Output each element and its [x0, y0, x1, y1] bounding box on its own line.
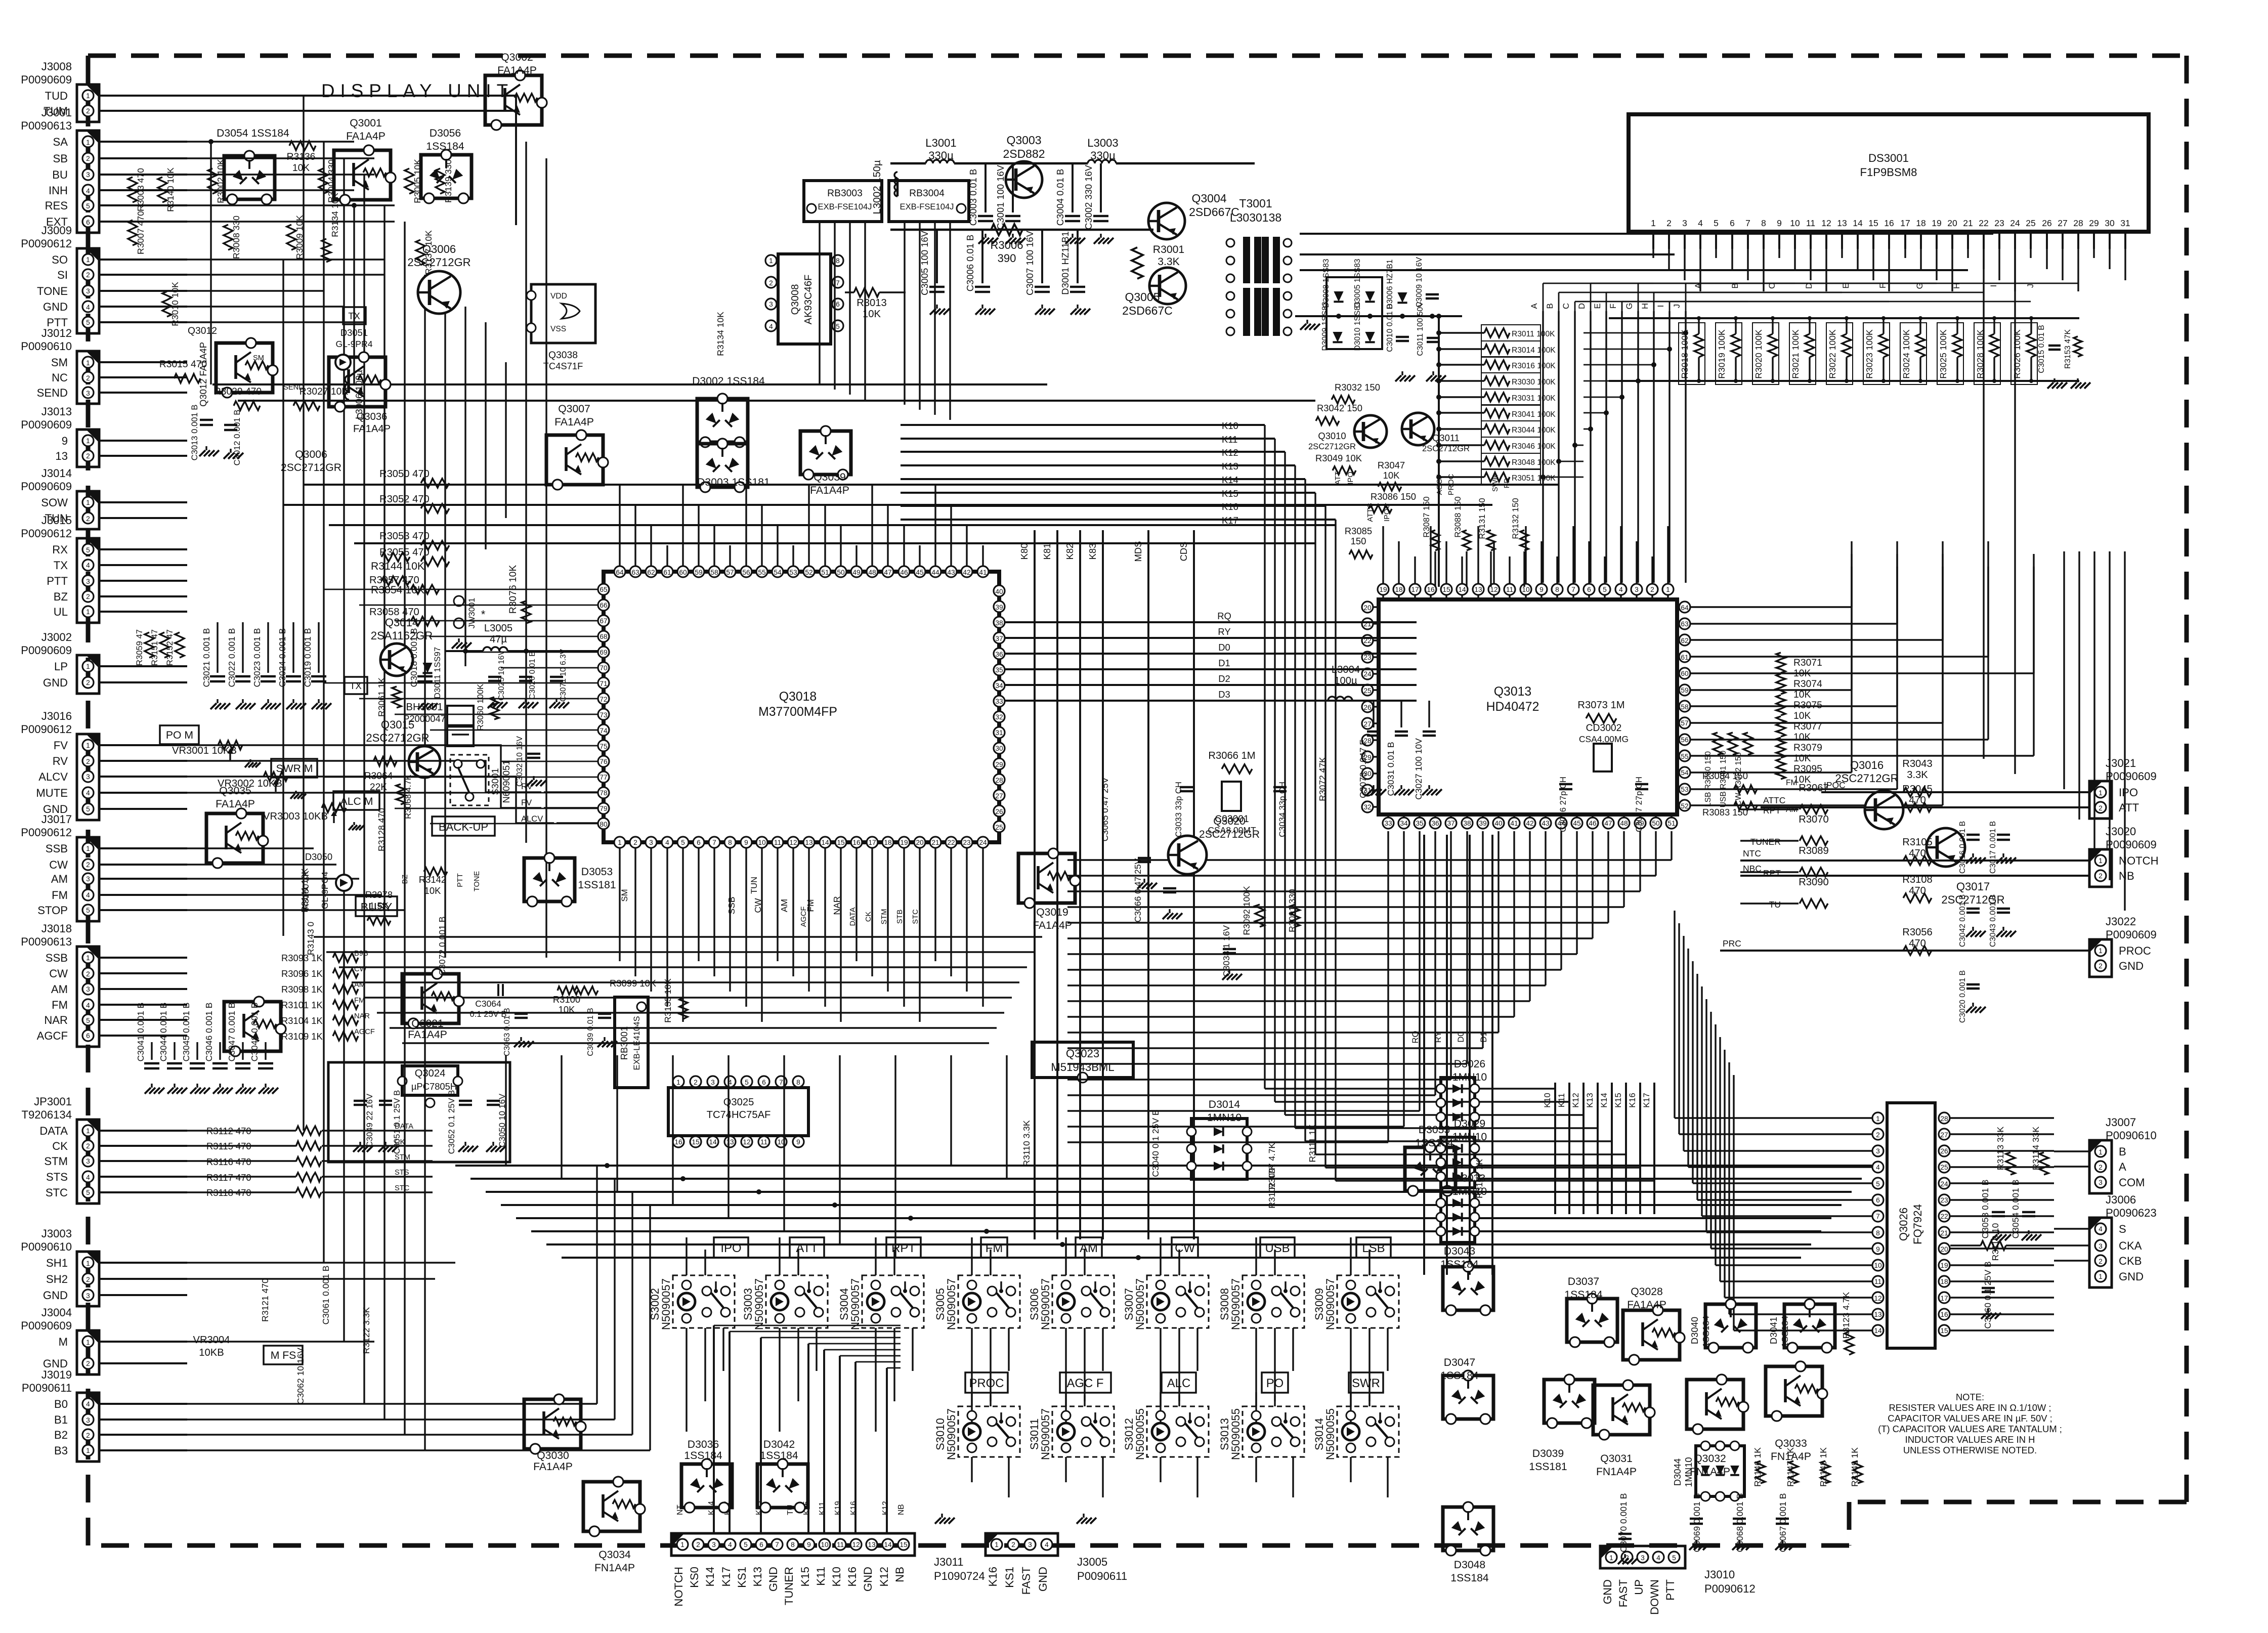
svg-text:42: 42 [1526, 820, 1533, 827]
svg-text:BU: BU [52, 168, 68, 181]
svg-text:P0090612: P0090612 [21, 826, 72, 839]
svg-text:2SC2712GR: 2SC2712GR [1422, 444, 1470, 453]
svg-text:K11: K11 [818, 1501, 827, 1515]
svg-text:T3001: T3001 [1239, 197, 1272, 210]
svg-text:R3150 1K: R3150 1K [301, 871, 311, 910]
svg-text:Q3028: Q3028 [1631, 1286, 1663, 1298]
svg-text:RES: RES [45, 199, 68, 212]
svg-text:FAST: FAST [1020, 1567, 1033, 1595]
svg-text:3: 3 [2099, 1179, 2103, 1186]
svg-text:7: 7 [1876, 1213, 1880, 1220]
svg-text:R3079: R3079 [1793, 743, 1822, 753]
svg-text:37: 37 [1447, 820, 1454, 827]
svg-text:36: 36 [995, 651, 1003, 658]
svg-text:2: 2 [86, 515, 90, 523]
svg-text:D3047: D3047 [1444, 1357, 1475, 1368]
svg-text:BUSY: BUSY [361, 900, 393, 914]
svg-text:D1: D1 [1218, 658, 1230, 668]
svg-text:J: J [1672, 304, 1682, 308]
svg-text:50: 50 [1652, 820, 1660, 827]
svg-text:C3049 22 16V: C3049 22 16V [365, 1094, 374, 1147]
svg-text:27: 27 [1363, 720, 1371, 728]
svg-text:2: 2 [86, 452, 90, 460]
svg-text:41: 41 [1510, 820, 1518, 827]
svg-text:J3015: J3015 [41, 514, 72, 527]
svg-text:52: 52 [1681, 802, 1688, 810]
svg-text:C3052 0.1 25V B: C3052 0.1 25V B [447, 1090, 456, 1154]
svg-text:VR3001 10KB: VR3001 10KB [172, 745, 237, 756]
svg-text:D3041: D3041 [1768, 1317, 1779, 1344]
svg-text:R3095: R3095 [1793, 764, 1822, 775]
svg-text:R3118 470: R3118 470 [206, 1187, 251, 1198]
svg-text:18: 18 [1916, 218, 1925, 228]
svg-text:20: 20 [1947, 218, 1957, 228]
svg-text:45: 45 [1573, 820, 1581, 827]
svg-text:VR3003 10KB: VR3003 10KB [263, 811, 328, 822]
svg-text:17: 17 [868, 839, 876, 846]
svg-text:1: 1 [2099, 857, 2103, 865]
svg-text:R3058 470: R3058 470 [369, 607, 419, 618]
svg-text:FM: FM [52, 999, 68, 1011]
svg-text:66: 66 [600, 601, 608, 609]
svg-text:R3090: R3090 [1799, 877, 1829, 888]
svg-text:2: 2 [1666, 218, 1672, 228]
svg-text:3: 3 [86, 578, 90, 585]
svg-text:18: 18 [884, 839, 892, 846]
svg-text:30: 30 [2105, 218, 2115, 228]
svg-text:K11: K11 [815, 1567, 827, 1586]
svg-text:AGCF: AGCF [354, 1028, 375, 1036]
svg-text:12: 12 [1821, 218, 1831, 228]
svg-text:USB: USB [1265, 1241, 1290, 1255]
svg-text:AK93C46F: AK93C46F [803, 275, 814, 325]
svg-text:RV: RV [53, 755, 68, 767]
svg-text:C3038 1 16V: C3038 1 16V [1221, 925, 1231, 977]
svg-text:6: 6 [759, 1541, 763, 1549]
svg-text:R3031 100K: R3031 100K [1512, 394, 1556, 403]
svg-text:R3096 1K: R3096 1K [281, 968, 323, 979]
svg-text:1: 1 [86, 1260, 90, 1267]
svg-text:K16: K16 [849, 1501, 858, 1515]
svg-text:1SS184: 1SS184 [1440, 1370, 1479, 1382]
svg-text:56: 56 [742, 569, 750, 576]
svg-text:N5090057: N5090057 [1324, 1278, 1337, 1330]
svg-text:J3014: J3014 [41, 467, 72, 480]
svg-text:16: 16 [1884, 218, 1894, 228]
svg-text:C3023 0.001 B: C3023 0.001 B [252, 628, 262, 687]
svg-text:E: E [1593, 303, 1602, 309]
svg-text:N5090055: N5090055 [1229, 1408, 1242, 1460]
svg-text:Q3026: Q3026 [1897, 1208, 1910, 1241]
svg-text:42: 42 [963, 569, 970, 576]
svg-text:JW3001: JW3001 [467, 598, 477, 629]
svg-text:RESISTER VALUES ARE IN Ω.1/10: RESISTER VALUES ARE IN Ω.1/10W ; [1889, 1402, 2051, 1413]
svg-text:H: H [1952, 283, 1961, 289]
svg-text:60: 60 [1681, 670, 1689, 677]
svg-text:FM: FM [52, 889, 68, 901]
svg-text:10K: 10K [1793, 668, 1811, 679]
svg-text:PD: PD [1503, 478, 1511, 488]
svg-text:2: 2 [86, 374, 90, 382]
svg-text:12: 12 [852, 1541, 860, 1549]
svg-text:R3032 150: R3032 150 [1335, 382, 1380, 393]
svg-text:C3053 0.001 B: C3053 0.001 B [1980, 1180, 1990, 1239]
svg-text:R3132 150: R3132 150 [1511, 498, 1520, 539]
svg-text:R3083 150: R3083 150 [1702, 807, 1748, 818]
svg-text:51: 51 [1667, 820, 1675, 827]
svg-text:C3021 0.001 B: C3021 0.001 B [201, 628, 211, 687]
svg-text:FA1A4P: FA1A4P [533, 1461, 573, 1473]
svg-text:R3016 100K: R3016 100K [1512, 362, 1556, 370]
svg-text:Q3013: Q3013 [1494, 685, 1531, 699]
svg-text:1: 1 [2099, 1273, 2103, 1280]
svg-text:Q3006: Q3006 [295, 449, 327, 460]
svg-text:D3001 HZ11B1: D3001 HZ11B1 [1060, 231, 1071, 294]
svg-text:57: 57 [1681, 719, 1688, 727]
svg-text:16: 16 [1940, 1311, 1948, 1318]
svg-text:R3051 100K: R3051 100K [1512, 474, 1556, 483]
svg-text:AM: AM [51, 873, 68, 885]
svg-text:47µ: 47µ [490, 634, 507, 645]
svg-text:R3005 10K: R3005 10K [412, 159, 422, 203]
svg-text:10K: 10K [292, 163, 310, 174]
svg-text:100µ: 100µ [1334, 675, 1357, 686]
svg-text:3.3K: 3.3K [1907, 769, 1928, 781]
svg-text:P0090623: P0090623 [2106, 1207, 2157, 1219]
svg-text:K17: K17 [1642, 1093, 1651, 1108]
svg-text:INH: INH [49, 184, 68, 197]
svg-text:GND: GND [43, 300, 68, 313]
svg-text:STM: STM [44, 1155, 68, 1168]
svg-text:13: 13 [1837, 218, 1847, 228]
svg-text:TU: TU [1769, 899, 1781, 910]
svg-text:C3063 0.01 B: C3063 0.01 B [503, 1008, 511, 1056]
svg-text:GND: GND [43, 1289, 68, 1302]
svg-text:PROC: PROC [969, 1377, 1004, 1390]
svg-text:40: 40 [995, 588, 1003, 595]
svg-text:1SS184: 1SS184 [426, 141, 464, 152]
svg-text:20: 20 [916, 839, 924, 846]
svg-text:CDS: CDS [1178, 542, 1189, 562]
svg-text:J3011: J3011 [934, 1556, 964, 1568]
svg-text:R3117 470: R3117 470 [206, 1172, 251, 1183]
svg-text:4: 4 [86, 187, 90, 195]
svg-text:33: 33 [1384, 820, 1392, 827]
svg-text:11: 11 [760, 1138, 767, 1146]
svg-text:VR3002 10KB: VR3002 10KB [218, 778, 282, 789]
svg-text:Q3003: Q3003 [1006, 134, 1041, 147]
svg-text:4: 4 [2099, 1225, 2103, 1233]
svg-text:1: 1 [2099, 789, 2103, 797]
svg-text:D3039: D3039 [1532, 1448, 1564, 1459]
svg-text:C3017 0.001 B: C3017 0.001 B [1989, 821, 1997, 874]
svg-text:C3042 0.001 B: C3042 0.001 B [1958, 894, 1967, 947]
svg-text:TUNER: TUNER [783, 1567, 795, 1605]
svg-text:R3093 1K: R3093 1K [281, 953, 323, 963]
svg-text:PO M: PO M [166, 729, 193, 741]
svg-text:L3006 100µ: L3006 100µ [354, 370, 364, 419]
svg-text:Q3023: Q3023 [1066, 1047, 1099, 1060]
svg-text:14: 14 [709, 1138, 717, 1146]
svg-text:13: 13 [726, 1138, 734, 1146]
svg-text:N5090057: N5090057 [1134, 1278, 1146, 1330]
svg-text:3: 3 [86, 875, 90, 883]
svg-text:GL-9PG4: GL-9PG4 [320, 872, 330, 909]
svg-text:CD3002: CD3002 [1586, 723, 1622, 734]
svg-text:3: 3 [86, 985, 90, 993]
svg-text:GND: GND [2119, 960, 2144, 972]
svg-text:6: 6 [1876, 1196, 1880, 1204]
svg-text:8: 8 [796, 1079, 800, 1086]
svg-text:R3102 47K: R3102 47K [1267, 1164, 1277, 1209]
svg-text:J: J [2026, 284, 2035, 288]
svg-text:J3006: J3006 [2106, 1193, 2136, 1206]
svg-text:C3072 0.001 B: C3072 0.001 B [437, 917, 447, 976]
svg-text:22: 22 [1940, 1213, 1948, 1220]
svg-text:1: 1 [86, 139, 90, 146]
svg-text:10: 10 [1874, 1262, 1882, 1269]
svg-text:54: 54 [774, 569, 782, 576]
svg-text:GND: GND [1601, 1579, 1614, 1604]
svg-text:Q3038: Q3038 [548, 350, 578, 361]
svg-text:D3005 1SS83: D3005 1SS83 [1353, 259, 1362, 308]
svg-text:R3086 150: R3086 150 [1371, 491, 1416, 502]
svg-text:K15: K15 [799, 1567, 811, 1586]
svg-text:40: 40 [1494, 820, 1503, 827]
svg-text:D3011 1SS97: D3011 1SS97 [433, 647, 442, 699]
svg-text:57: 57 [726, 569, 734, 576]
svg-text:36: 36 [1431, 820, 1439, 827]
svg-text:Q3012 FA1A4P: Q3012 FA1A4P [198, 342, 208, 407]
svg-text:C3027 100 10V: C3027 100 10V [1414, 738, 1424, 800]
svg-text:5: 5 [1876, 1180, 1880, 1188]
svg-text:CW: CW [49, 858, 68, 871]
svg-text:1MN10: 1MN10 [1452, 1131, 1487, 1143]
svg-text:470: 470 [1909, 885, 1926, 896]
svg-text:5: 5 [86, 1017, 90, 1024]
svg-text:FM: FM [1786, 779, 1798, 787]
svg-text:1MN10: 1MN10 [1207, 1112, 1242, 1124]
svg-text:Q3016: Q3016 [1850, 759, 1884, 771]
svg-text:GND: GND [43, 676, 68, 689]
svg-text:SSB: SSB [726, 896, 737, 914]
svg-text:CKB: CKB [2119, 1255, 2142, 1267]
svg-text:K11: K11 [1222, 434, 1237, 445]
svg-text:D: D [1804, 283, 1814, 289]
svg-text:25: 25 [1363, 687, 1372, 695]
svg-text:2: 2 [633, 839, 637, 846]
svg-text:K14: K14 [1222, 475, 1238, 485]
svg-text:15: 15 [1868, 218, 1878, 228]
svg-text:1: 1 [1876, 1115, 1880, 1123]
svg-text:10K: 10K [1793, 753, 1811, 764]
svg-text:RQ: RQ [1217, 611, 1231, 621]
svg-text:L3004: L3004 [1332, 664, 1360, 675]
svg-text:TX: TX [54, 559, 68, 572]
svg-text:SO: SO [52, 253, 68, 266]
svg-text:2SD882: 2SD882 [1003, 147, 1045, 160]
svg-text:8: 8 [1761, 218, 1766, 228]
svg-text:13: 13 [805, 839, 813, 846]
svg-text:B: B [2119, 1145, 2126, 1158]
svg-text:A: A [2119, 1161, 2126, 1173]
svg-text:C3046 0.001 B: C3046 0.001 B [204, 1003, 214, 1062]
svg-text:R3111 1K: R3111 1K [1307, 1124, 1317, 1163]
svg-text:5: 5 [1714, 218, 1719, 228]
svg-text:I: I [1656, 305, 1665, 308]
svg-text:65: 65 [600, 586, 608, 593]
svg-text:390: 390 [998, 252, 1016, 265]
svg-text:7: 7 [779, 1079, 783, 1086]
svg-text:P0090609: P0090609 [2106, 838, 2157, 851]
svg-text:51: 51 [821, 569, 829, 576]
svg-text:5: 5 [745, 1079, 749, 1086]
svg-text:J3009: J3009 [41, 224, 72, 237]
svg-text:NAR: NAR [354, 1012, 370, 1020]
svg-text:C3009 10 16V: C3009 10 16V [1415, 257, 1424, 308]
svg-text:K15: K15 [1222, 488, 1238, 499]
svg-text:62: 62 [647, 569, 655, 576]
svg-text:STB: STB [896, 910, 904, 924]
svg-text:10K: 10K [1383, 470, 1400, 481]
svg-text:Q3011: Q3011 [1432, 433, 1460, 443]
svg-text:C3007 100 16V: C3007 100 16V [1024, 230, 1035, 295]
svg-text:TC4S71F: TC4S71F [543, 361, 583, 371]
svg-text:31: 31 [995, 729, 1003, 737]
svg-text:TX: TX [350, 680, 362, 691]
svg-text:AGCF: AGCF [1436, 475, 1444, 495]
svg-text:CSA8.00MT: CSA8.00MT [1208, 825, 1256, 835]
svg-text:TUN: TUN [749, 877, 759, 894]
svg-text:PO: PO [1266, 1377, 1284, 1390]
svg-text:SEND: SEND [37, 386, 68, 399]
svg-text:1: 1 [769, 257, 773, 265]
svg-text:N5090057: N5090057 [660, 1278, 672, 1330]
svg-text:26: 26 [2042, 218, 2051, 228]
svg-text:B2: B2 [54, 1429, 68, 1441]
svg-text:23: 23 [963, 839, 971, 846]
svg-text:1SS181: 1SS181 [1529, 1461, 1567, 1473]
svg-text:6: 6 [86, 219, 90, 226]
svg-text:28: 28 [995, 777, 1003, 784]
svg-text:AGCF: AGCF [37, 1029, 68, 1042]
svg-text:3: 3 [1641, 1554, 1645, 1562]
svg-text:Q3019: Q3019 [1036, 907, 1068, 918]
svg-text:VSS: VSS [550, 325, 566, 333]
svg-text:22: 22 [1979, 218, 1988, 228]
svg-text:R3085: R3085 [1345, 526, 1372, 536]
svg-text:CKA: CKA [2119, 1239, 2142, 1252]
svg-text:4: 4 [1045, 1541, 1049, 1549]
svg-text:M FS: M FS [271, 1350, 296, 1361]
svg-text:1: 1 [1651, 218, 1656, 228]
svg-text:1SS184: 1SS184 [1415, 1137, 1453, 1149]
svg-text:D3042: D3042 [763, 1439, 795, 1450]
svg-text:4: 4 [1698, 218, 1703, 228]
svg-text:4: 4 [1619, 586, 1623, 593]
svg-text:3: 3 [86, 171, 90, 179]
svg-text:1: 1 [618, 839, 622, 846]
svg-text:10: 10 [1522, 586, 1530, 593]
svg-text:D3055: D3055 [1419, 1124, 1450, 1136]
svg-text:DATA: DATA [395, 1123, 413, 1131]
svg-text:12: 12 [1490, 586, 1497, 593]
svg-text:R3025 100K: R3025 100K [1938, 329, 1948, 379]
svg-text:GND: GND [862, 1567, 874, 1592]
svg-text:JP3001: JP3001 [34, 1095, 72, 1108]
svg-text:64: 64 [616, 569, 624, 576]
svg-text:R3007 470: R3007 470 [136, 211, 146, 254]
svg-text:1: 1 [86, 663, 90, 670]
svg-text:15: 15 [692, 1138, 700, 1146]
svg-text:61: 61 [1681, 654, 1688, 661]
svg-text:80: 80 [600, 821, 608, 828]
svg-text:C: C [1561, 303, 1571, 309]
svg-text:C3039 0.01 B: C3039 0.01 B [586, 1008, 595, 1056]
svg-text:SA: SA [53, 136, 68, 148]
svg-text:C3054 0.001 B: C3054 0.001 B [2010, 1180, 2021, 1239]
svg-text:1SS184: 1SS184 [1564, 1289, 1603, 1301]
svg-text:R3136: R3136 [287, 152, 316, 162]
svg-text:D3009 1SS83: D3009 1SS83 [1321, 302, 1330, 351]
svg-text:FQ7924: FQ7924 [1911, 1204, 1924, 1244]
svg-text:R3050 470: R3050 470 [379, 468, 430, 480]
svg-text:3: 3 [86, 1157, 90, 1165]
svg-text:5: 5 [86, 319, 90, 326]
svg-text:T9206134: T9206134 [21, 1108, 72, 1121]
svg-text:1: 1 [86, 359, 90, 367]
svg-text:38: 38 [1463, 820, 1471, 827]
svg-text:C3048 0.001 B: C3048 0.001 B [249, 1003, 260, 1062]
svg-text:R3042 150: R3042 150 [1317, 403, 1362, 413]
svg-text:P0090610: P0090610 [2106, 1129, 2157, 1142]
svg-text:C3066 0.47 25V: C3066 0.47 25V [1133, 858, 1143, 922]
svg-text:R3105: R3105 [1902, 837, 1933, 848]
svg-text:P0090613: P0090613 [21, 935, 72, 948]
svg-text:K80: K80 [1019, 543, 1030, 560]
svg-text:7: 7 [1571, 586, 1575, 593]
svg-text:16: 16 [852, 839, 861, 846]
svg-text:2SA1162GR: 2SA1162GR [371, 629, 433, 642]
svg-text:2SD667C: 2SD667C [1189, 205, 1239, 219]
svg-text:1: 1 [1609, 1554, 1613, 1562]
svg-text:C3031 0.01 B: C3031 0.01 B [1386, 742, 1396, 796]
svg-text:5: 5 [86, 202, 90, 210]
svg-text:1SS184: 1SS184 [1450, 1572, 1489, 1584]
svg-text:37: 37 [995, 635, 1003, 642]
svg-text:C3015 0.01 B: C3015 0.01 B [2037, 325, 2046, 373]
svg-text:EXB-FSE104J: EXB-FSE104J [900, 202, 954, 211]
svg-text:R3030 100K: R3030 100K [1512, 378, 1556, 386]
svg-text:R3152 47: R3152 47 [165, 629, 175, 666]
svg-text:P1090724: P1090724 [934, 1570, 985, 1582]
svg-text:NC: NC [52, 371, 68, 384]
svg-text:AM: AM [51, 983, 68, 996]
svg-text:34: 34 [995, 682, 1003, 690]
svg-text:8: 8 [1555, 586, 1559, 593]
svg-text:R3067: R3067 [1799, 783, 1829, 794]
svg-text:J3010: J3010 [1704, 1568, 1735, 1581]
svg-text:2: 2 [2099, 1164, 2103, 1171]
svg-text:F1P9BSM8: F1P9BSM8 [1860, 166, 1917, 179]
svg-text:5: 5 [681, 839, 685, 846]
svg-text:3: 3 [649, 839, 653, 846]
svg-text:48: 48 [868, 569, 876, 576]
svg-text:10K: 10K [1793, 732, 1811, 743]
svg-text:2: 2 [1876, 1131, 1880, 1139]
svg-text:R3134 10K: R3134 10K [715, 312, 725, 356]
svg-text:38: 38 [995, 619, 1003, 627]
